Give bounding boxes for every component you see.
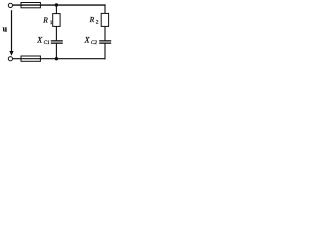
capacitor C2 (99, 40, 111, 42)
terminal top-left (8, 3, 12, 7)
svg-text:R: R (89, 15, 95, 24)
resistor box top series (unlabeled) (21, 3, 40, 8)
wire R1 to C1 (55, 26, 57, 40)
svg-text:u: u (3, 25, 8, 34)
svg-text:C2: C2 (91, 40, 98, 46)
svg-text:X: X (84, 35, 91, 44)
voltage arrow u (11, 10, 13, 52)
wire C1 lower (55, 44, 57, 59)
svg-text:R: R (42, 16, 48, 25)
wire top horizontal (13, 4, 106, 6)
resistor box bottom series (unlabeled) (21, 56, 40, 61)
wire R1 branch upper (55, 5, 57, 14)
resistor R2 (vertical box) (101, 13, 108, 26)
svg-text:C1: C1 (44, 40, 51, 46)
svg-text:1: 1 (50, 20, 53, 26)
wire C2 lower (104, 44, 106, 60)
resistor R1 (vertical box) (53, 14, 60, 27)
node junction top (R1 tap) (55, 3, 58, 6)
svg-text:2: 2 (96, 20, 99, 26)
wire R2 to C2 (104, 26, 106, 40)
node junction bottom (C1 to bottom wire) (55, 57, 58, 60)
wire right riser upper (104, 4, 106, 13)
svg-text:X: X (36, 36, 43, 45)
capacitor C1 (51, 40, 63, 42)
terminal bottom-left (8, 57, 12, 61)
wire bottom horizontal (13, 58, 106, 60)
